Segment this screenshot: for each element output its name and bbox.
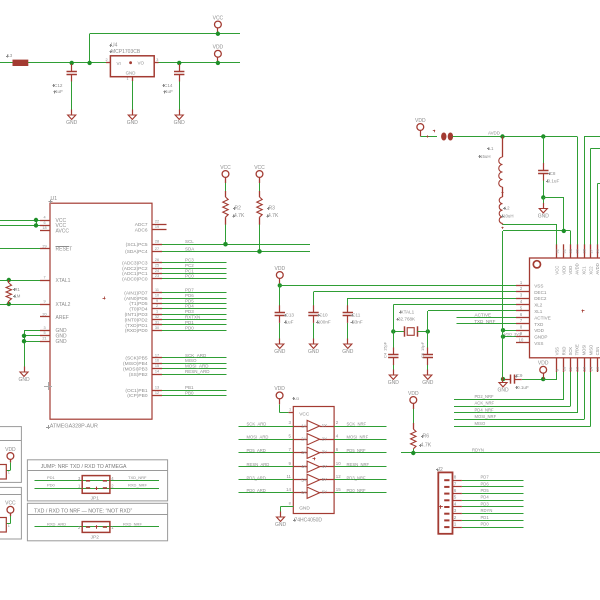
svg-text:(SCL)PC5: (SCL)PC5 <box>126 242 148 248</box>
svg-text:ATMEGA328P-AUR: ATMEGA328P-AUR <box>50 423 98 429</box>
svg-text:1uF: 1uF <box>55 89 63 94</box>
svg-text:30: 30 <box>155 326 159 330</box>
svg-text:1: 1 <box>8 470 10 474</box>
svg-text:1: 1 <box>156 310 158 314</box>
svg-text:MOSI_ARD: MOSI_ARD <box>185 364 209 369</box>
svg-text:XTAL1: XTAL1 <box>401 309 415 314</box>
svg-text:C11: C11 <box>352 313 361 318</box>
svg-text:(SS)PB2: (SS)PB2 <box>129 372 148 378</box>
svg-text:AREF: AREF <box>56 315 69 321</box>
svg-text:XC2: XC2 <box>588 266 593 275</box>
svg-text:VDD_3V3: VDD_3V3 <box>504 332 521 336</box>
svg-text:CSN: CSN <box>595 347 600 356</box>
svg-text:PD2_NRF: PD2_NRF <box>475 394 495 399</box>
svg-text:28: 28 <box>582 248 587 253</box>
svg-text:(MISO)PB4: (MISO)PB4 <box>123 361 148 367</box>
svg-text:7: 7 <box>43 275 45 279</box>
svg-text:GND: GND <box>388 380 400 386</box>
svg-text:31: 31 <box>561 248 566 253</box>
svg-text:10: 10 <box>155 293 159 297</box>
svg-text:9: 9 <box>43 299 45 303</box>
svg-text:(OC1)PB1: (OC1)PB1 <box>125 388 147 394</box>
svg-text:C14: C14 <box>164 83 173 88</box>
svg-text:5: 5 <box>454 495 457 500</box>
svg-text:PD4: PD4 <box>481 495 490 500</box>
svg-text:MISO: MISO <box>475 421 486 426</box>
svg-text:11: 11 <box>155 288 159 292</box>
svg-text:GND: GND <box>66 120 78 126</box>
svg-text:33nF: 33nF <box>352 319 363 324</box>
svg-text:23: 23 <box>155 274 159 278</box>
svg-text:2Y: 2Y <box>322 436 327 441</box>
svg-text:PD6: PD6 <box>481 481 490 486</box>
svg-text:20: 20 <box>42 312 46 316</box>
svg-text:PD0_NRF: PD0_NRF <box>347 488 367 493</box>
svg-text:VDD: VDD <box>5 447 16 453</box>
svg-text:14: 14 <box>155 370 159 374</box>
svg-text:11: 11 <box>286 474 291 479</box>
svg-text:VCC: VCC <box>5 501 16 507</box>
svg-text:MOSI_NRF: MOSI_NRF <box>347 435 369 440</box>
svg-text:12: 12 <box>336 474 341 479</box>
svg-text:(TXD)PD1: (TXD)PD1 <box>125 323 147 329</box>
svg-text:VDD: VDD <box>534 328 544 333</box>
svg-text:TXD / RXD TO NRF — NOTE: “NOT: TXD / RXD TO NRF — NOTE: “NOT RXD” <box>34 508 133 514</box>
svg-text:RDYN: RDYN <box>472 448 484 453</box>
svg-text:15: 15 <box>336 487 341 492</box>
svg-text:PC2: PC2 <box>185 263 194 268</box>
svg-text:R6: R6 <box>423 434 430 440</box>
svg-text:AVDD: AVDD <box>595 263 600 274</box>
svg-text:5A: 5A <box>301 477 306 482</box>
svg-text:12: 12 <box>575 366 580 371</box>
svg-text:GND: GND <box>342 349 354 355</box>
svg-text:(AIN0)PD6: (AIN0)PD6 <box>124 296 148 302</box>
svg-text:PD0: PD0 <box>185 325 194 330</box>
svg-text:DEC1: DEC1 <box>534 290 547 295</box>
svg-text:VDD: VDD <box>274 386 285 392</box>
svg-text:6: 6 <box>454 488 457 493</box>
svg-text:10uH: 10uH <box>503 213 514 218</box>
svg-text:SCK: SCK <box>568 347 573 356</box>
svg-text:JP1: JP1 <box>91 495 100 501</box>
svg-text:(ADC1)PC1: (ADC1)PC1 <box>122 271 148 277</box>
svg-text:ACTIVE: ACTIVE <box>475 313 492 318</box>
svg-text:(ADC0)PC0: (ADC0)PC0 <box>122 277 148 283</box>
svg-text:GND: GND <box>422 380 434 386</box>
svg-text:15uH: 15uH <box>480 154 491 159</box>
svg-text:2A: 2A <box>301 437 306 442</box>
svg-text:27: 27 <box>155 247 159 251</box>
svg-text:MOSI_NRF: MOSI_NRF <box>475 414 497 419</box>
svg-text:C8: C8 <box>550 171 556 176</box>
svg-text:VSS: VSS <box>534 283 543 288</box>
svg-text:(RXD)PD0: (RXD)PD0 <box>125 328 148 334</box>
svg-text:15: 15 <box>595 366 600 371</box>
svg-text:3: 3 <box>454 508 457 513</box>
svg-text:10: 10 <box>336 461 341 466</box>
svg-text:GND: GND <box>56 339 68 345</box>
svg-text:9: 9 <box>156 299 158 303</box>
svg-text:PD3: PD3 <box>185 309 194 314</box>
svg-text:12: 12 <box>155 391 159 395</box>
svg-text:VCC: VCC <box>254 165 265 171</box>
svg-text:VI: VI <box>117 61 121 66</box>
svg-text:PD0_ARD: PD0_ARD <box>247 488 266 493</box>
svg-text:1: 1 <box>126 77 128 81</box>
svg-text:4.7K: 4.7K <box>234 213 245 219</box>
svg-text:MOSI_ARD: MOSI_ARD <box>247 435 269 440</box>
svg-text:4.7K: 4.7K <box>268 213 279 219</box>
svg-text:3: 3 <box>156 58 158 62</box>
svg-text:U4: U4 <box>111 43 118 49</box>
svg-text:PD3: PD3 <box>481 501 490 506</box>
svg-text:RESN_ARD: RESN_ARD <box>185 369 210 374</box>
svg-text:R1: R1 <box>15 287 21 292</box>
svg-text:74HC4050D: 74HC4050D <box>295 517 323 523</box>
svg-text:PD7: PD7 <box>481 475 490 480</box>
svg-text:6A: 6A <box>301 490 306 495</box>
svg-text:RXD_NRF: RXD_NRF <box>123 521 142 526</box>
svg-text:27: 27 <box>588 248 593 253</box>
svg-text:PD0: PD0 <box>481 522 490 527</box>
svg-text:PD6: PD6 <box>185 293 194 298</box>
svg-text:JUMP: NRF TXD / RXD TO ATMEGA: JUMP: NRF TXD / RXD TO ATMEGA <box>41 464 127 470</box>
svg-text:C4: C4 <box>383 352 388 358</box>
svg-text:C12: C12 <box>54 83 63 88</box>
svg-text:R3: R3 <box>269 206 276 212</box>
svg-text:6Y: 6Y <box>322 490 327 495</box>
svg-text:MOSI: MOSI <box>582 345 587 356</box>
svg-text:PC1: PC1 <box>185 268 194 273</box>
svg-text:PD1: PD1 <box>185 320 194 325</box>
svg-text:PD4_NRF: PD4_NRF <box>475 407 495 412</box>
svg-text:RXD: RXD <box>561 347 566 356</box>
svg-text:VO: VO <box>138 61 145 66</box>
svg-text:GND: GND <box>299 506 310 512</box>
svg-text:13: 13 <box>582 366 587 371</box>
svg-text:16: 16 <box>155 359 159 363</box>
svg-text:VCC: VCC <box>299 411 310 417</box>
svg-text:4: 4 <box>454 501 457 506</box>
svg-text:PD5: PD5 <box>185 298 194 303</box>
svg-text:VDD: VDD <box>408 391 419 397</box>
svg-text:JP2: JP2 <box>91 535 100 541</box>
svg-text:PD0: PD0 <box>47 482 56 487</box>
svg-text:(T0)PD4: (T0)PD4 <box>129 307 147 313</box>
svg-text:14: 14 <box>286 487 291 492</box>
svg-text:0.1uF: 0.1uF <box>517 385 529 390</box>
svg-text:32: 32 <box>555 248 560 253</box>
svg-text:4.7K: 4.7K <box>421 443 432 449</box>
svg-text:28: 28 <box>155 240 159 244</box>
svg-text:24: 24 <box>155 269 159 273</box>
svg-text:VDD: VDD <box>561 266 566 275</box>
svg-text:TRXE: TRXE <box>575 344 580 355</box>
svg-text:1uF: 1uF <box>286 319 294 324</box>
svg-text:PC3: PC3 <box>185 258 194 263</box>
svg-text:13: 13 <box>155 385 159 389</box>
svg-text:GND: GND <box>538 213 550 219</box>
svg-text:10: 10 <box>561 366 566 371</box>
svg-text:GND: GND <box>127 120 139 126</box>
svg-text:(AIN1)PD7: (AIN1)PD7 <box>124 290 148 296</box>
svg-text:25: 25 <box>155 263 159 267</box>
svg-text:C5: C5 <box>420 352 425 358</box>
svg-text:1: 1 <box>289 408 291 412</box>
svg-text:1uF: 1uF <box>165 89 173 94</box>
svg-text:GND: GND <box>275 522 287 528</box>
svg-text:DEC2: DEC2 <box>534 296 547 301</box>
svg-text:15pF: 15pF <box>383 341 388 351</box>
svg-text:VCC: VCC <box>220 165 231 171</box>
svg-text:U3: U3 <box>294 396 300 401</box>
svg-text:XTAL2: XTAL2 <box>56 302 71 308</box>
svg-text:32: 32 <box>155 315 159 319</box>
svg-text:GND: GND <box>18 377 30 383</box>
svg-text:VDD: VDD <box>275 266 286 272</box>
svg-text:VDD: VDD <box>213 45 224 51</box>
svg-text:(MOSI)PB3: (MOSI)PB3 <box>123 367 148 373</box>
svg-text:XC1: XC1 <box>582 266 587 275</box>
svg-text:GND: GND <box>497 387 509 393</box>
svg-text:PD4: PD4 <box>185 304 194 309</box>
svg-text:GND: GND <box>308 349 320 355</box>
svg-text:RDYN: RDYN <box>481 508 493 513</box>
svg-text:XL2: XL2 <box>534 303 543 308</box>
svg-text:3Y: 3Y <box>322 450 327 455</box>
svg-text:1: 1 <box>8 524 10 528</box>
svg-text:RESN_NRF: RESN_NRF <box>347 462 370 467</box>
svg-text:VCC: VCC <box>555 266 560 275</box>
svg-text:VDD: VDD <box>568 266 573 275</box>
svg-text:8: 8 <box>289 502 291 506</box>
svg-text:4A: 4A <box>301 464 306 469</box>
svg-text:ADC6: ADC6 <box>135 227 148 233</box>
svg-text:VDD: VDD <box>538 361 549 367</box>
svg-text:PD3_NRF: PD3_NRF <box>347 475 367 480</box>
svg-text:C9: C9 <box>517 373 523 378</box>
svg-text:RXTXN: RXTXN <box>185 315 200 320</box>
svg-text:SCK_NRF: SCK_NRF <box>347 421 367 426</box>
svg-text:TXD_NRF: TXD_NRF <box>474 319 495 324</box>
svg-text:3: 3 <box>43 326 45 330</box>
svg-text:R2: R2 <box>235 206 242 212</box>
svg-text:SCL: SCL <box>185 239 194 244</box>
svg-text:(ADC2)PC2: (ADC2)PC2 <box>122 266 148 272</box>
svg-text:22: 22 <box>155 220 159 224</box>
svg-text:MISO: MISO <box>588 344 593 355</box>
svg-text:RXD_NRF: RXD_NRF <box>128 482 147 487</box>
svg-text:26: 26 <box>595 248 600 253</box>
svg-text:AVDD: AVDD <box>575 263 580 274</box>
svg-text:5Y: 5Y <box>322 477 327 482</box>
svg-text:PD1: PD1 <box>47 475 56 480</box>
svg-text:19: 19 <box>155 225 159 229</box>
svg-text:PD5: PD5 <box>481 488 490 493</box>
svg-text:(ADC3)PC3: (ADC3)PC3 <box>122 260 148 266</box>
svg-text:GND: GND <box>274 349 286 355</box>
svg-text:29: 29 <box>575 248 580 253</box>
svg-text:SCK_ARD: SCK_ARD <box>185 353 207 358</box>
svg-text:VSS: VSS <box>555 347 560 356</box>
svg-text:30: 30 <box>568 248 573 253</box>
svg-text:1M: 1M <box>15 293 21 298</box>
svg-text:(SCK)PB5: (SCK)PB5 <box>125 356 147 362</box>
svg-text:(SDA)PC4: (SDA)PC4 <box>125 249 148 255</box>
svg-text:VDD: VDD <box>415 118 426 124</box>
svg-text:1A: 1A <box>301 423 306 428</box>
svg-text:SCK_ARD: SCK_ARD <box>247 421 267 426</box>
svg-text:4: 4 <box>43 215 45 219</box>
svg-text:32.768K: 32.768K <box>398 316 416 321</box>
svg-text:L1: L1 <box>489 146 494 151</box>
svg-text:2: 2 <box>105 58 107 62</box>
svg-text:6: 6 <box>43 221 45 225</box>
svg-text:PD7: PD7 <box>185 288 194 293</box>
svg-text:3A: 3A <box>301 450 306 455</box>
svg-text:10: 10 <box>519 337 524 342</box>
svg-text:18: 18 <box>42 226 46 230</box>
svg-text:AVDD: AVDD <box>488 131 500 136</box>
svg-text:(T1)PD5: (T1)PD5 <box>129 301 147 307</box>
svg-text:(INT0)PD2: (INT0)PD2 <box>125 317 148 323</box>
svg-text:ACTIVE: ACTIVE <box>534 315 551 320</box>
svg-text:ACK_NRF: ACK_NRF <box>475 401 495 406</box>
svg-text:PD1: PD1 <box>481 515 490 520</box>
svg-text:GND: GND <box>174 120 186 126</box>
svg-text:21: 21 <box>42 337 46 341</box>
svg-text:MISO: MISO <box>185 358 197 363</box>
svg-text:MCP1703CB: MCP1703CB <box>111 49 141 55</box>
svg-text:(ICP)PB0: (ICP)PB0 <box>127 393 148 399</box>
svg-text:XTAL1: XTAL1 <box>56 278 71 284</box>
svg-text:RXD_ARD: RXD_ARD <box>47 521 66 526</box>
svg-text:PB0: PB0 <box>185 390 194 395</box>
svg-text:(INT1)PD3: (INT1)PD3 <box>125 312 148 318</box>
svg-text:0.1uF: 0.1uF <box>548 178 560 183</box>
svg-text:PD5_NRF: PD5_NRF <box>347 448 367 453</box>
svg-text:2: 2 <box>156 304 158 308</box>
svg-text:5: 5 <box>43 331 45 335</box>
svg-text:26: 26 <box>155 258 159 262</box>
svg-text:C13: C13 <box>286 313 295 318</box>
svg-text:15: 15 <box>155 364 159 368</box>
svg-text:TXD: TXD <box>534 322 544 327</box>
svg-text:RESN_ARD: RESN_ARD <box>247 462 270 467</box>
svg-text:1: 1 <box>454 522 457 527</box>
svg-text:100nF: 100nF <box>318 319 331 324</box>
svg-text:TXD_NRF: TXD_NRF <box>128 475 147 480</box>
svg-text:1Y: 1Y <box>322 423 327 428</box>
svg-text:17: 17 <box>155 353 159 357</box>
svg-text:7: 7 <box>454 481 457 486</box>
svg-text:U1: U1 <box>51 196 58 202</box>
svg-text:L3: L3 <box>8 53 13 58</box>
svg-text:ADC7: ADC7 <box>135 222 148 228</box>
svg-text:2: 2 <box>454 515 457 520</box>
svg-text:15pF: 15pF <box>420 341 425 351</box>
svg-text:PD3_ARD: PD3_ARD <box>247 475 266 480</box>
svg-text:L2: L2 <box>505 206 510 211</box>
svg-text:C10: C10 <box>319 313 328 318</box>
svg-text:AVCC: AVCC <box>56 229 70 235</box>
svg-text:SDA: SDA <box>185 246 194 251</box>
svg-text:PD5_ARD: PD5_ARD <box>247 448 266 453</box>
svg-text:8: 8 <box>454 475 457 480</box>
svg-text:31: 31 <box>155 320 159 324</box>
svg-text:GND: GND <box>126 71 136 76</box>
svg-text:4Y: 4Y <box>322 464 327 469</box>
svg-text:XL1: XL1 <box>534 309 543 314</box>
svg-text:PC0: PC0 <box>185 274 194 279</box>
svg-text:VCC: VCC <box>213 15 224 21</box>
svg-text:VSS: VSS <box>534 341 543 346</box>
svg-text:RESET: RESET <box>56 247 73 253</box>
svg-text:GNDP: GNDP <box>534 335 547 340</box>
svg-text:14: 14 <box>588 366 593 371</box>
svg-text:PB1: PB1 <box>185 385 194 390</box>
svg-text:29: 29 <box>42 244 46 248</box>
